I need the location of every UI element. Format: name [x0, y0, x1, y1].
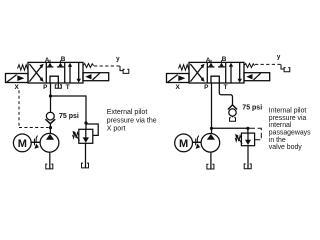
svg-text:pressure via: pressure via — [269, 115, 307, 122]
svg-text:y: y — [116, 56, 120, 63]
svg-text:y: y — [277, 54, 281, 61]
svg-text:M: M — [18, 138, 27, 150]
svg-text:M: M — [179, 138, 188, 150]
svg-text:pressure via the: pressure via the — [107, 117, 157, 124]
svg-text:External pilot: External pilot — [107, 109, 148, 116]
svg-text:75 psi: 75 psi — [59, 113, 79, 120]
svg-text:75 psi: 75 psi — [242, 105, 262, 112]
svg-text:in the: in the — [269, 137, 286, 144]
svg-text:T: T — [66, 84, 70, 91]
svg-text:internal: internal — [269, 122, 292, 129]
svg-text:T: T — [224, 84, 228, 91]
svg-text:passageways: passageways — [269, 130, 311, 137]
svg-text:Internal pilot: Internal pilot — [269, 108, 307, 115]
svg-text:valve body: valve body — [269, 144, 302, 151]
svg-text:X port: X port — [107, 126, 126, 133]
